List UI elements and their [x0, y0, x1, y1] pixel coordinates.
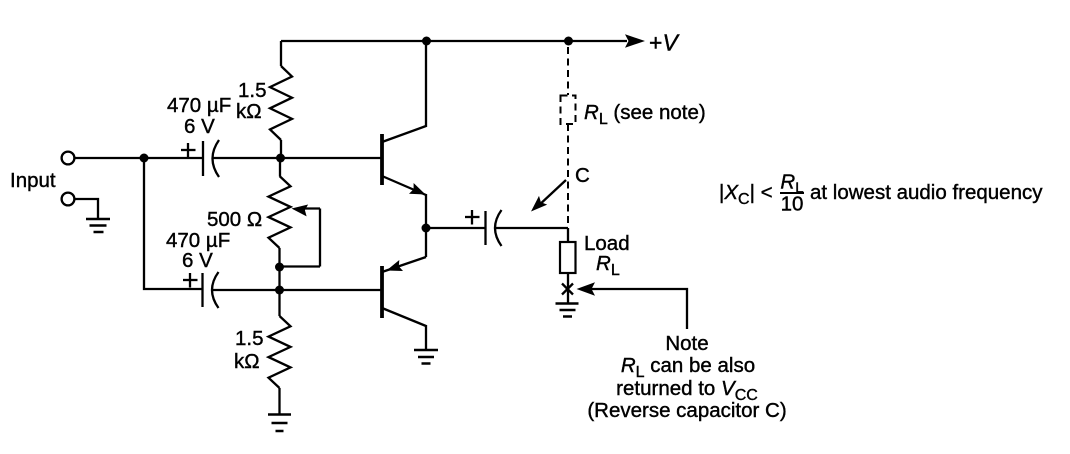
- resistor R2 1.5 kOhm: [269, 290, 291, 414]
- input terminal J2: [62, 193, 75, 206]
- wire +V rail: [281, 40, 627, 42]
- wire left vertical drop: [144, 158, 202, 289]
- svg-text:Input: Input: [10, 169, 56, 192]
- formula |Xc| < RL/10: [719, 171, 1043, 216]
- +V arrow: [625, 34, 645, 48]
- wire J2 to ground: [75, 199, 99, 219]
- wire wiper node to lower node: [278, 267, 280, 290]
- ground (load): [556, 304, 579, 317]
- input terminal J1: [62, 152, 75, 165]
- note arrow: [577, 282, 688, 329]
- wiper arrow R3: [280, 205, 321, 267]
- ground (Q2): [414, 350, 438, 364]
- wire J1 to C1: [75, 157, 203, 159]
- wire base Q1: [281, 157, 381, 159]
- capacitor C1 470uF: [181, 140, 219, 177]
- node input junction: [140, 154, 149, 163]
- node base Q2: [275, 286, 284, 295]
- svg-text:1.5: 1.5: [238, 79, 267, 102]
- ground (input): [86, 219, 110, 232]
- capacitor C3 (output C): [465, 210, 502, 246]
- wire load to X: [567, 273, 569, 303]
- ground (R2): [268, 415, 291, 432]
- node RL branch top: [564, 37, 573, 46]
- dashed wire RL bottom: [567, 124, 569, 226]
- svg-text:at lowest audio frequency: at lowest audio frequency: [810, 181, 1043, 204]
- wire C3 to load node: [495, 227, 568, 229]
- svg-text:(Reverse capacitor C): (Reverse capacitor C): [587, 399, 786, 422]
- X mark (RL return point): [562, 284, 573, 295]
- svg-text:470 µF: 470 µF: [167, 94, 231, 117]
- transistor Q1 (NPN): [382, 41, 426, 228]
- svg-text:6 V: 6 V: [184, 115, 215, 138]
- resistor RL (see note, dashed): [561, 96, 576, 125]
- node base Q1: [276, 154, 285, 163]
- wire output to C3: [426, 227, 485, 229]
- node wiper junction: [275, 263, 284, 272]
- svg-text:+V: +V: [649, 30, 680, 56]
- dashed wire RL top: [567, 47, 569, 95]
- potentiometer R3 500 Ohm: [269, 158, 291, 267]
- capacitor C2 470uF: [183, 272, 219, 308]
- svg-text:500 Ω: 500 Ω: [207, 208, 262, 231]
- wire C2 to lower node: [212, 289, 280, 291]
- svg-text:Note: Note: [665, 332, 708, 355]
- wire base Q2: [280, 289, 381, 291]
- svg-text:C: C: [575, 164, 590, 187]
- svg-text:kΩ: kΩ: [234, 350, 260, 373]
- node collector Q1: [422, 37, 431, 46]
- wire node to load: [567, 228, 569, 242]
- load resistor RL: [560, 242, 576, 273]
- node output: [422, 224, 431, 233]
- resistor R1 1.5 kOhm: [270, 41, 292, 158]
- svg-text:kΩ: kΩ: [236, 100, 262, 123]
- transistor Q2 (PNP): [382, 228, 426, 350]
- svg-text:6 V: 6 V: [182, 249, 213, 272]
- arrow to C3: [531, 180, 566, 212]
- svg-text:10: 10: [781, 193, 804, 216]
- svg-text:1.5: 1.5: [235, 327, 264, 350]
- wire C1 to base node: [213, 157, 282, 159]
